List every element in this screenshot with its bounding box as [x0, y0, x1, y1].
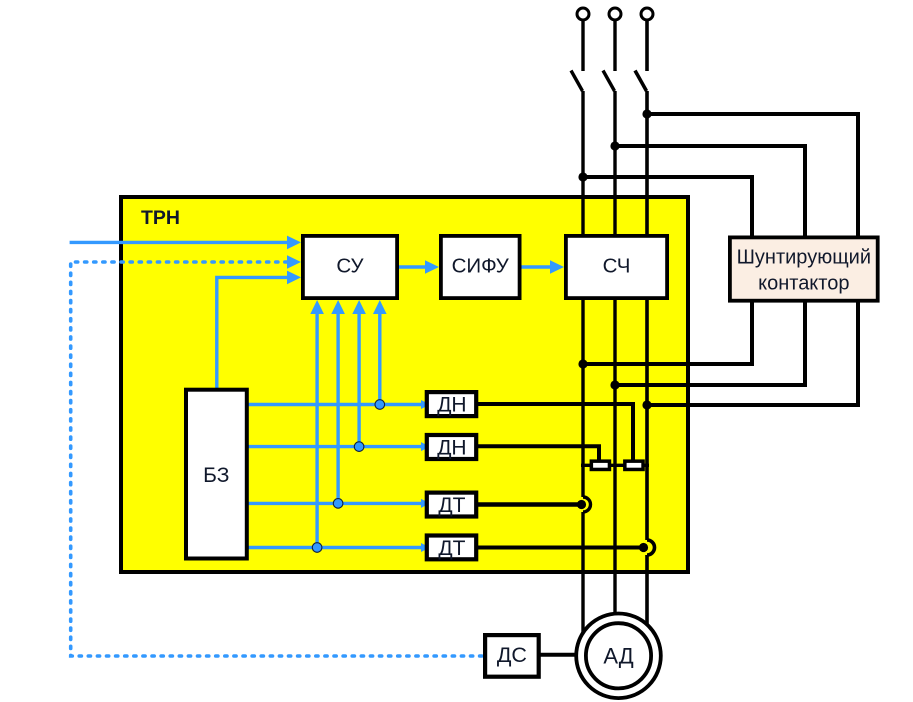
svg-text:АД: АД — [603, 644, 633, 669]
junction A bottom — [578, 359, 587, 368]
svg-text:ДТ: ДТ — [438, 494, 465, 517]
wire DN1 output — [478, 404, 633, 460]
block shunt contactor — [730, 237, 878, 300]
wire feedback vertical 1 to SU — [310, 300, 324, 548]
wire speed feedback (dotted blue) — [71, 262, 484, 656]
junction C top — [642, 109, 651, 118]
wire BZ to SU — [217, 271, 301, 388]
svg-text:СУ: СУ — [336, 255, 364, 278]
wire phase B vertical — [613, 20, 616, 650]
junction C bottom — [642, 400, 651, 409]
wire phase A vertical — [583, 20, 591, 650]
node tap 1 — [375, 400, 385, 410]
junction B bottom — [610, 380, 619, 389]
svg-text:ДН: ДН — [437, 394, 466, 417]
block BZ — [186, 390, 247, 559]
node tap 4 — [312, 543, 322, 553]
junction B top — [610, 141, 619, 150]
block DS — [485, 635, 539, 677]
block SIFU — [441, 236, 520, 298]
wire DT2 output — [477, 546, 644, 550]
svg-text:СИФУ: СИФУ — [452, 255, 510, 278]
junction A top — [578, 172, 587, 181]
svg-text:ДС: ДС — [497, 643, 527, 667]
bypass wire phase B to contactor — [615, 146, 805, 385]
terminal A — [577, 8, 589, 20]
node tap 2 — [354, 442, 364, 452]
wire BZ row 4 to DT2 — [247, 543, 430, 552]
block DT1 — [427, 493, 476, 517]
wire SU to SIFU — [399, 260, 439, 274]
wire feedback vertical 4 to SU — [373, 300, 387, 405]
junction DT2 — [639, 543, 648, 552]
wire BZ row 3 to DT1 — [247, 499, 430, 508]
wire BZ row 2 to DN2 — [247, 442, 430, 451]
wire SIFU to SCH — [522, 260, 565, 274]
block DN1 — [427, 392, 476, 417]
node tap 3 — [333, 499, 343, 509]
wire phase C vertical — [647, 20, 655, 665]
svg-text:Шунтирующий: Шунтирующий — [737, 247, 871, 269]
terminal B — [609, 8, 621, 20]
motor AD — [576, 614, 661, 699]
svg-text:контактор: контактор — [758, 273, 849, 295]
wire DS to motor — [540, 653, 578, 657]
wire voltage sensing link — [581, 464, 649, 467]
wire DN2 output — [478, 446, 599, 460]
svg-text:БЗ: БЗ — [203, 464, 229, 487]
wire DT1 output — [477, 502, 582, 507]
switch blade C — [635, 71, 647, 92]
block DN2 — [427, 435, 476, 460]
sense resistor 2 — [625, 461, 643, 469]
switch blade B — [603, 71, 615, 92]
block SU — [303, 236, 397, 298]
block TRN (yellow region) — [121, 197, 688, 572]
wire control input (solid blue) — [70, 236, 301, 250]
terminal C — [641, 8, 653, 20]
svg-text:СЧ: СЧ — [603, 255, 631, 278]
svg-text:ТРН: ТРН — [141, 207, 180, 229]
sense resistor 1 — [591, 461, 609, 469]
junction DT1 — [577, 500, 586, 509]
block SCH — [566, 236, 667, 298]
bypass wire phase C to contactor — [647, 114, 858, 405]
wire BZ row 1 to DN1 — [247, 400, 430, 409]
wire feedback vertical 2 to SU — [331, 300, 345, 503]
bypass wire phase A to contactor — [583, 177, 752, 364]
svg-text:ДН: ДН — [437, 437, 466, 460]
svg-text:ДТ: ДТ — [438, 537, 465, 560]
arrowhead feedback at SU — [287, 255, 301, 269]
switch blade A — [571, 71, 583, 92]
wire feedback vertical 3 to SU — [352, 300, 366, 447]
block DT2 — [427, 536, 476, 560]
